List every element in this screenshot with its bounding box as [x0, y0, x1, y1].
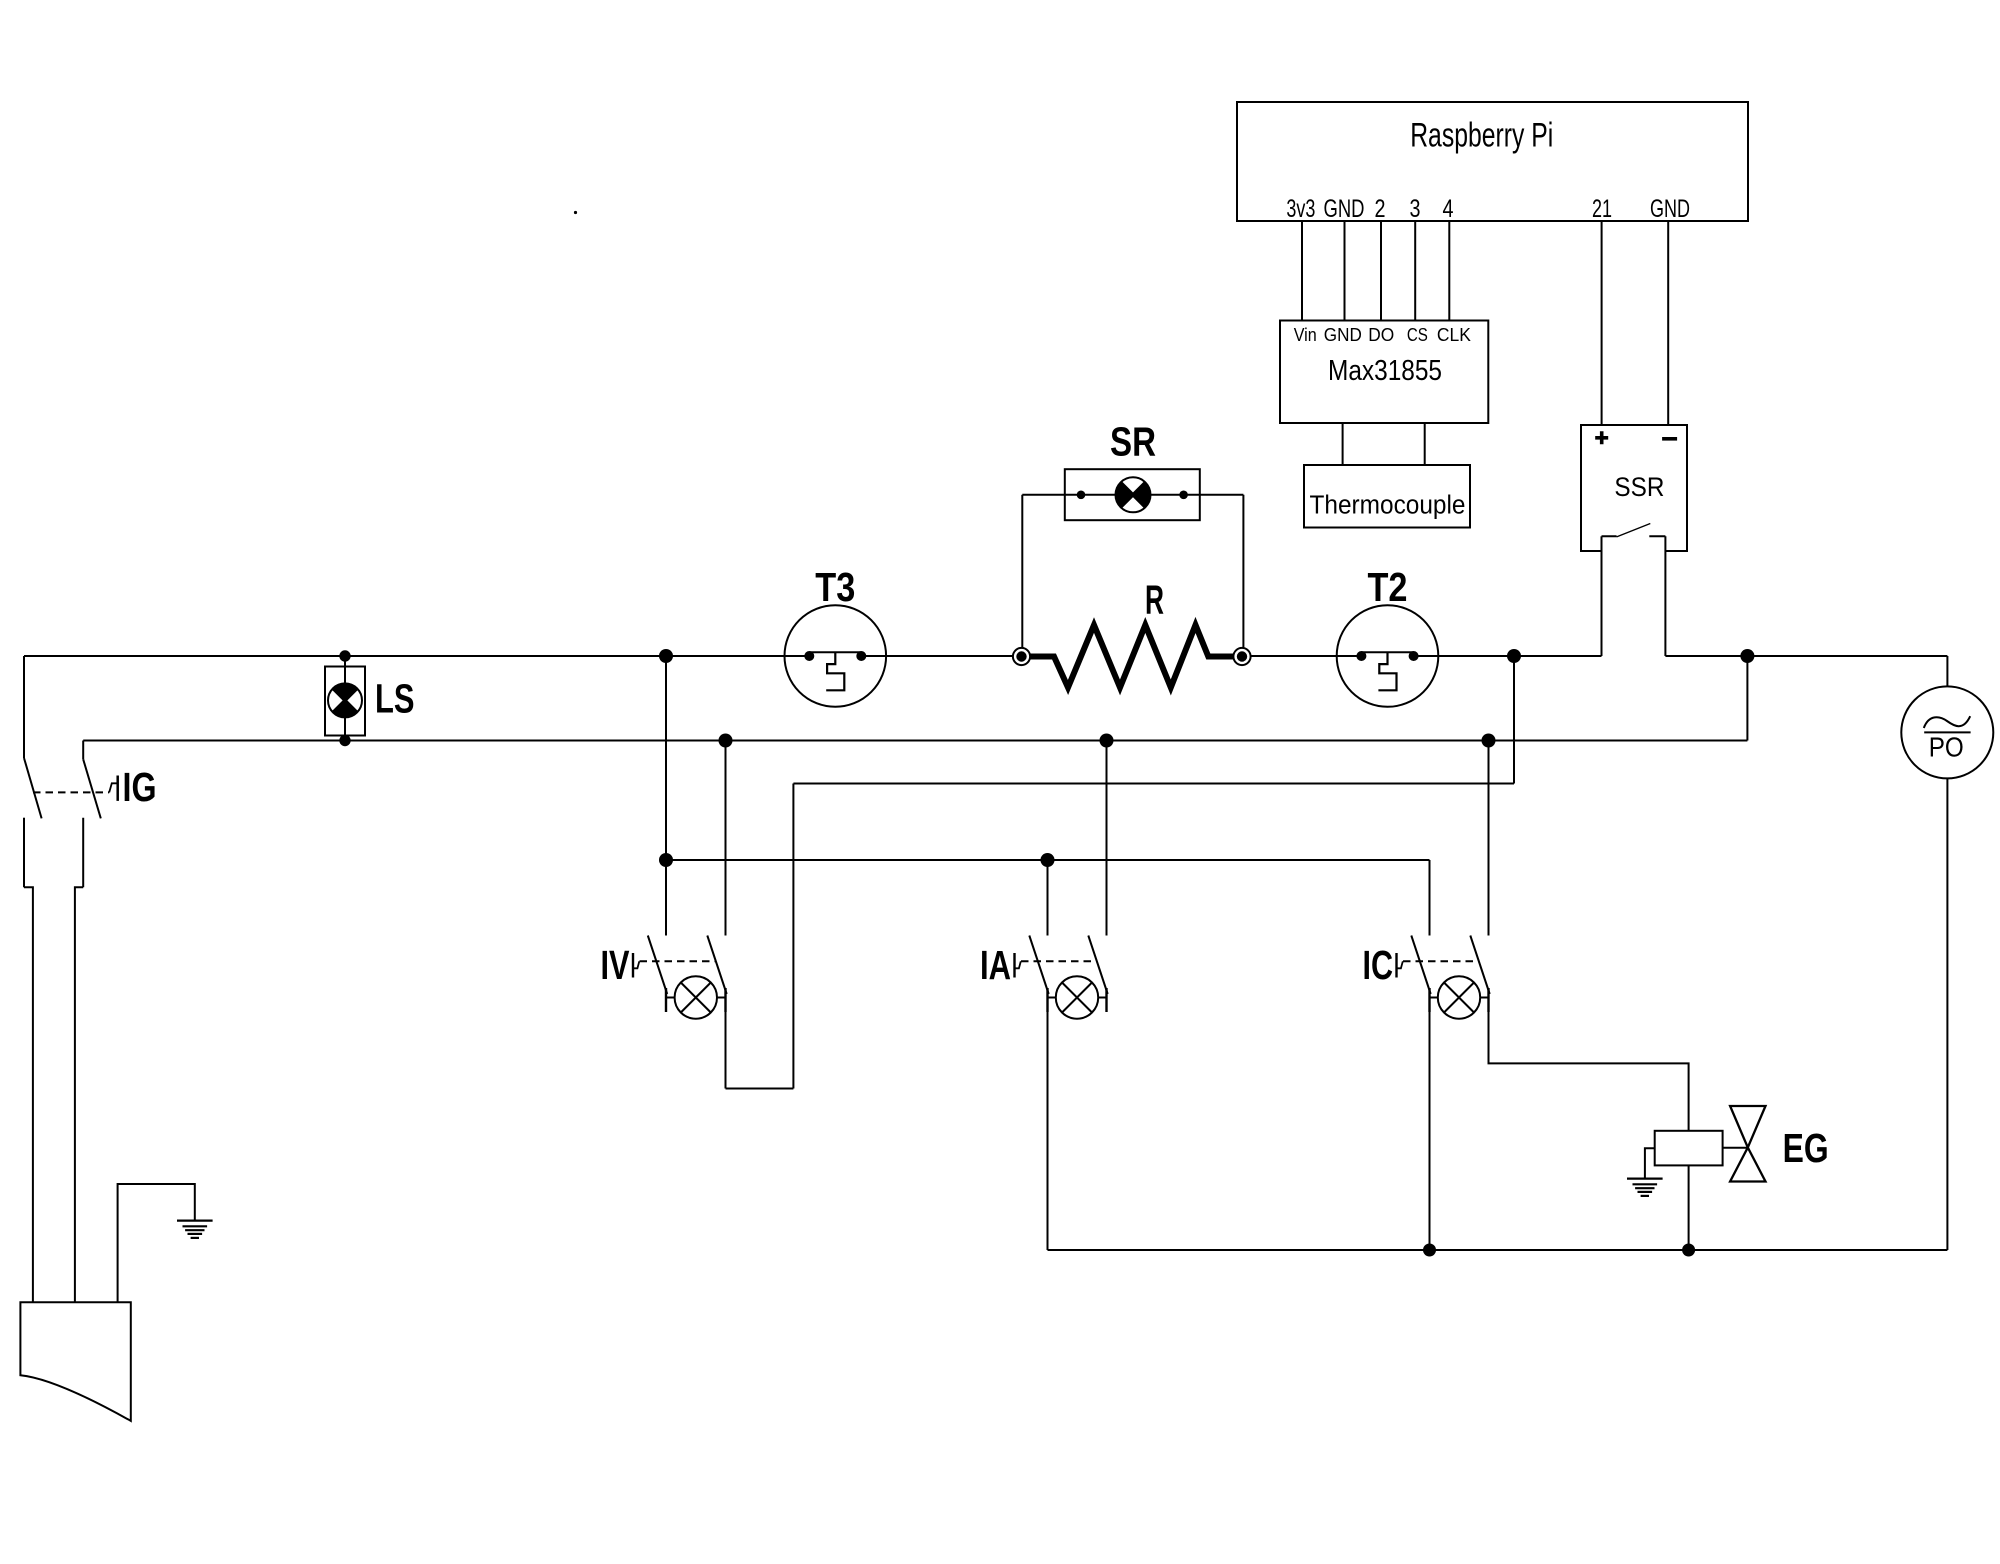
- ground symbol (plug earth): [177, 1221, 213, 1238]
- node LS bottom on L2: [339, 735, 350, 746]
- svg-text:R: R: [1145, 577, 1164, 623]
- svg-text:GND: GND: [1650, 195, 1690, 223]
- wire IA right top from L2: [1106, 741, 1108, 936]
- node junction at L4 left end: [659, 853, 673, 867]
- svg-text:3: 3: [1410, 195, 1421, 223]
- AC source PO: [1901, 686, 1993, 778]
- wire RPi pin4 to Max31855 CLK: [1448, 221, 1450, 321]
- node junction on L1 at LS: [339, 650, 350, 661]
- illuminated switch IC: [1397, 936, 1490, 1019]
- svg-text:GND: GND: [1324, 324, 1362, 345]
- SSR minus terminal mark: [1662, 437, 1677, 441]
- svg-text:IG: IG: [123, 764, 157, 810]
- ground symbol (EG): [1627, 1179, 1663, 1196]
- svg-text:2: 2: [1375, 195, 1386, 223]
- thermostat T2: [1337, 605, 1439, 707]
- node junction on L1 at x1514: [1507, 649, 1521, 663]
- node junction on L1 at x1747: [1740, 649, 1754, 663]
- wire EG coil to valve: [1723, 1147, 1748, 1149]
- stray dot artifact: [574, 211, 577, 214]
- SSR plus terminal mark: [1595, 431, 1608, 444]
- Max31855 box U2: [1280, 321, 1488, 424]
- svg-text:IV: IV: [601, 942, 630, 988]
- wire live bus L1 segment c: [1242, 655, 1361, 657]
- wire lower bus L2: [83, 740, 1747, 742]
- illuminated switch IA: [1015, 936, 1108, 1019]
- wire SSR output left down to live bus: [1601, 536, 1603, 656]
- svg-text:Raspberry Pi: Raspberry Pi: [1410, 117, 1553, 155]
- node junction on rail at IC: [1423, 1244, 1436, 1257]
- node junction on L2 at IA: [1100, 734, 1114, 748]
- wire RPi GND to SSR minus: [1667, 221, 1669, 425]
- wire live bus L1 segment right of SSR: [1665, 655, 1947, 657]
- SSR internal switch blade: [1617, 524, 1651, 537]
- svg-text:Max31855: Max31855: [1328, 355, 1442, 387]
- wire live bus L1 segment b: [861, 655, 1021, 657]
- wire RPi pin2 to Max31855 DO: [1380, 221, 1382, 321]
- signal lamp LS: [325, 656, 365, 741]
- wire up to IV right terminal: [725, 1012, 727, 1089]
- wire IC right terminal to EG valve: [1489, 1012, 1689, 1131]
- thermostat T3: [785, 605, 887, 707]
- node R right terminal: [1233, 648, 1250, 665]
- wire RPi pin3 to Max31855 CS: [1414, 221, 1416, 321]
- wire L3 right corner up to L1 node: [1513, 656, 1515, 784]
- wire L2 right corner up to L1: [1746, 656, 1748, 741]
- wire live bus L1 segment a: [24, 655, 809, 657]
- node junction on L2 at IV: [719, 734, 733, 748]
- svg-text:3v3: 3v3: [1286, 195, 1315, 223]
- wire IA left terminal down to rail: [1047, 1012, 1049, 1250]
- wire bottom rail L5: [1048, 1249, 1948, 1251]
- node junction on L4 at IA: [1041, 853, 1055, 867]
- SSR internal switch contact bars: [1602, 535, 1666, 537]
- wire line L3: [793, 783, 1514, 785]
- resistor R (heating element): [1022, 625, 1243, 688]
- wire L4 node down to IA left: [1047, 860, 1049, 936]
- svg-text:CLK: CLK: [1437, 324, 1472, 345]
- SSR box U3 (border with bottom gap): [1581, 425, 1687, 551]
- wire PO bottom down to rail: [1946, 778, 1948, 1250]
- svg-text:DO: DO: [1368, 324, 1394, 345]
- svg-text:T2: T2: [1368, 564, 1408, 610]
- svg-text:21: 21: [1592, 195, 1612, 223]
- wire EG coil to rail: [1688, 1165, 1690, 1250]
- mains plug: [20, 1302, 130, 1421]
- solenoid valve EG coil: [1655, 1131, 1723, 1166]
- wire SSR output right down to live bus: [1664, 536, 1666, 656]
- wire IC right top from L2: [1488, 741, 1490, 936]
- wire L4 right corner down to IC left: [1429, 860, 1431, 936]
- svg-text:LS: LS: [375, 676, 415, 722]
- wire Max31855 to Thermocouple (left): [1342, 423, 1344, 465]
- switch IG (double pole): [24, 656, 118, 1302]
- node junction on rail at EG: [1682, 1244, 1695, 1257]
- wire RPi GND to Max31855 GND: [1344, 221, 1346, 321]
- svg-text:T3: T3: [815, 564, 855, 610]
- wire line L4: [666, 859, 1430, 861]
- svg-text:SR: SR: [1110, 419, 1156, 465]
- wire RPi pin21 to SSR plus: [1601, 221, 1603, 425]
- svg-text:CS: CS: [1407, 324, 1428, 345]
- wire U-turn below IV: [726, 1088, 794, 1090]
- svg-text:IA: IA: [980, 942, 1011, 988]
- wire plug earth prong: [118, 1184, 195, 1302]
- wire IV right top from L2: [725, 741, 727, 936]
- EG valve bowtie: [1730, 1106, 1765, 1182]
- Thermocouple box: [1304, 465, 1470, 528]
- svg-text:GND: GND: [1324, 195, 1365, 223]
- wire PO top: [1946, 656, 1948, 687]
- wire Max31855 to Thermocouple (right): [1424, 423, 1426, 465]
- wire live bus L1 segment d: [1414, 655, 1602, 657]
- wire IC left terminal down to rail: [1429, 1012, 1431, 1250]
- wire L3 left corner down: [792, 784, 794, 1089]
- svg-text:Vin: Vin: [1294, 324, 1317, 345]
- svg-text:4: 4: [1443, 195, 1454, 223]
- signal lamp SR (parallel with R): [1022, 469, 1243, 648]
- svg-text:Thermocouple: Thermocouple: [1310, 492, 1466, 520]
- node R left terminal: [1013, 648, 1030, 665]
- svg-text:EG: EG: [1783, 1125, 1829, 1171]
- wire RPi 3v3 to Max31855 Vin: [1301, 221, 1303, 321]
- wire L1 node down through L4 to IV left: [665, 656, 667, 936]
- node junction on L2 at IC: [1482, 734, 1496, 748]
- svg-text:IC: IC: [1363, 942, 1394, 988]
- illuminated switch IV: [633, 936, 727, 1019]
- wire EG coil to ground: [1645, 1148, 1655, 1178]
- svg-text:SSR: SSR: [1614, 472, 1664, 502]
- node junction on L1 at x666: [659, 649, 673, 663]
- svg-text:PO: PO: [1929, 732, 1964, 763]
- Raspberry Pi box U1: [1237, 102, 1748, 221]
